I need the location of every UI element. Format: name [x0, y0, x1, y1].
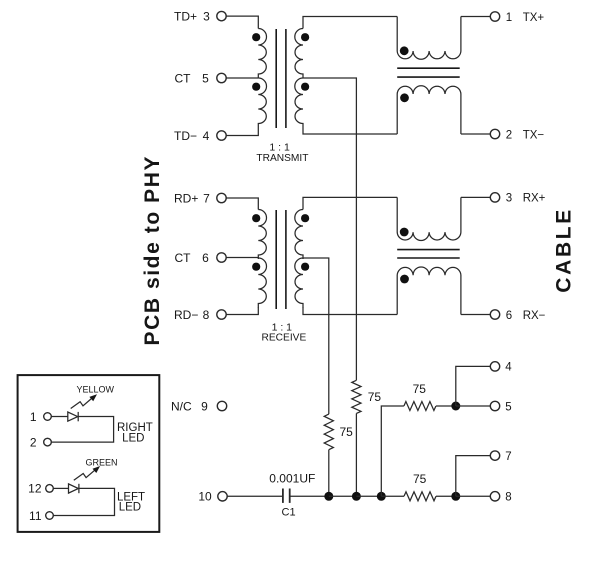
- wire R3 to node E: [436, 405, 456, 407]
- wire T1 secondary top to choke L1: [303, 17, 397, 29]
- svg-text:LED: LED: [122, 433, 144, 445]
- svg-text:CT: CT: [175, 251, 192, 265]
- wire node E to pin 5 (cable): [456, 405, 491, 407]
- choke L1 top winding: [397, 17, 461, 60]
- wire node C to R3: [381, 406, 404, 496]
- svg-text:8: 8: [505, 492, 511, 504]
- choke L2 top winding dot: [400, 228, 409, 237]
- svg-text:2: 2: [506, 129, 512, 141]
- svg-text:RD−: RD−: [174, 308, 198, 322]
- svg-text:75: 75: [413, 382, 427, 396]
- choke L2 bottom winding dot: [400, 275, 409, 284]
- wire pin3 to T1 primary top: [226, 16, 258, 28]
- terminal pin 9 no connect: [217, 401, 226, 410]
- junction node E: [451, 402, 460, 411]
- wire LED D1 to pin 2: [51, 417, 113, 443]
- T2 primary polarity dots: [252, 214, 260, 222]
- svg-text:GREEN: GREEN: [85, 458, 117, 468]
- transformer T2 secondary winding: [295, 210, 303, 260]
- wire R2 to bottom node: [355, 413, 357, 496]
- terminal pin 10: [218, 492, 227, 501]
- choke L1 bottom winding: [397, 86, 461, 134]
- transformer T2 core: [275, 210, 277, 309]
- LED D2 green (diode): [69, 484, 79, 493]
- T1 primary polarity dots: [252, 33, 260, 41]
- svg-text:TX−: TX−: [523, 129, 545, 141]
- wire R4 to node D: [436, 495, 456, 497]
- terminal pin 2 (LED): [44, 438, 52, 446]
- svg-text:TRANSMIT: TRANSMIT: [256, 153, 308, 164]
- svg-text:9: 9: [201, 399, 208, 413]
- resistor R1 75 ohm (vertical): [324, 414, 333, 450]
- LED D2 indicator arrow: [74, 468, 97, 480]
- choke L2 core: [397, 249, 460, 251]
- choke L1 core: [397, 67, 460, 69]
- svg-text:7: 7: [203, 191, 210, 205]
- wire pin5 to T1 primary center tap: [226, 77, 258, 79]
- terminal pin 8 (cable): [490, 492, 499, 501]
- LED D1 indicator arrow: [71, 396, 94, 408]
- svg-text:75: 75: [413, 472, 427, 486]
- svg-text:0.001UF: 0.001UF: [269, 471, 315, 485]
- terminal pin 6 (cable): [490, 310, 499, 319]
- junction node B: [352, 492, 361, 501]
- svg-text:7: 7: [505, 451, 511, 463]
- wire pin4 to T1 primary bottom: [226, 128, 258, 136]
- resistor R2 75 ohm (vertical): [352, 380, 361, 413]
- svg-text:8: 8: [203, 308, 210, 322]
- svg-text:RX+: RX+: [523, 193, 546, 205]
- wire choke L2 to pin 6: [461, 314, 490, 316]
- wire pin1 to LED D1: [51, 416, 68, 418]
- LED section enclosure box: [18, 375, 160, 532]
- wire C1 to node A: [290, 495, 329, 497]
- svg-text:1 : 1: 1 : 1: [272, 321, 293, 333]
- svg-text:3: 3: [506, 193, 512, 205]
- svg-text:RD+: RD+: [174, 191, 198, 205]
- svg-text:11: 11: [29, 509, 42, 523]
- wire R1 to bottom node: [328, 450, 330, 497]
- terminal pin 4 (cable): [490, 362, 499, 371]
- svg-text:PCB side to PHY: PCB side to PHY: [141, 157, 164, 346]
- T2 secondary polarity dots: [301, 214, 309, 222]
- svg-text:4: 4: [203, 129, 210, 143]
- terminal pin 3: [217, 11, 226, 20]
- svg-text:3: 3: [203, 9, 210, 23]
- wire pin12 to LED D2: [53, 487, 68, 489]
- wire choke L1 to pin 1: [461, 16, 490, 18]
- terminal pin 7 (phy): [217, 193, 226, 202]
- wire pin7 to T2 primary top: [226, 198, 258, 210]
- transformer T2 primary winding: [258, 210, 266, 260]
- svg-text:4: 4: [505, 362, 512, 374]
- junction node A: [324, 492, 333, 501]
- svg-text:6: 6: [202, 251, 209, 265]
- svg-text:2: 2: [30, 435, 37, 449]
- wire node D to pin 8 (cable): [456, 495, 491, 497]
- svg-text:RX−: RX−: [523, 310, 546, 322]
- svg-text:12: 12: [28, 482, 42, 496]
- svg-text:1: 1: [30, 410, 37, 424]
- wire T2 secondary center tap: [303, 258, 329, 414]
- terminal pin 1: [490, 12, 499, 21]
- svg-text:CT: CT: [175, 71, 192, 85]
- svg-text:RECEIVE: RECEIVE: [262, 333, 307, 344]
- wire choke L1 to pin 2: [461, 133, 490, 135]
- terminal pin 5 (cable): [490, 401, 499, 410]
- svg-text:1 : 1: 1 : 1: [269, 142, 290, 154]
- svg-text:N/C: N/C: [171, 399, 192, 413]
- wire pin8 to T2 primary bottom: [226, 307, 258, 315]
- wire pin6 to T2 primary center tap: [226, 257, 258, 259]
- wire choke L2 to pin 3: [461, 196, 490, 198]
- choke L1 top winding dot: [400, 46, 409, 55]
- wire node E to pin 4 (cable): [456, 366, 491, 406]
- T1 secondary polarity dots: [301, 33, 309, 41]
- terminal pin 1 (LED): [44, 413, 52, 421]
- wire node B to node C: [356, 495, 381, 497]
- terminal pin 8 (phy): [217, 310, 226, 319]
- svg-text:10: 10: [198, 490, 212, 504]
- terminal pin 7 (cable): [490, 451, 499, 460]
- choke L2 top winding: [397, 197, 461, 240]
- svg-text:CABLE: CABLE: [552, 210, 575, 293]
- wire pin10 to C1: [227, 495, 283, 497]
- terminal pin 2: [490, 129, 499, 138]
- capacitor C1 0.001UF: [282, 489, 284, 503]
- wire T2 secondary top to choke L2: [303, 197, 397, 209]
- svg-text:TD+: TD+: [174, 9, 197, 23]
- svg-text:YELLOW: YELLOW: [76, 384, 114, 394]
- svg-text:TD−: TD−: [174, 129, 197, 143]
- resistor R3 75 ohm (horizontal): [404, 402, 436, 411]
- svg-text:5: 5: [505, 401, 511, 413]
- resistor R4 75 ohm (horizontal): [404, 492, 436, 501]
- svg-text:5: 5: [202, 71, 209, 85]
- svg-text:6: 6: [506, 310, 512, 322]
- junction node C: [377, 492, 386, 501]
- wire node D to pin 7 (cable): [456, 456, 491, 497]
- svg-text:75: 75: [340, 425, 354, 439]
- svg-text:LED: LED: [119, 502, 141, 514]
- wire T1 secondary bottom to choke L1: [303, 128, 397, 135]
- LED D1 yellow (diode): [68, 412, 78, 421]
- svg-text:75: 75: [368, 390, 382, 404]
- terminal pin 5: [217, 73, 226, 82]
- transformer T1 core: [275, 29, 277, 128]
- terminal pin 3 (cable): [490, 193, 499, 202]
- transformer T1 primary winding: [258, 29, 266, 79]
- wire node A to node B: [329, 495, 357, 497]
- wire T2 secondary bottom to choke L2: [303, 307, 397, 315]
- junction node D: [451, 492, 460, 501]
- wire LED D2 to pin 11: [53, 488, 114, 515]
- svg-text:C1: C1: [282, 507, 296, 519]
- svg-text:1: 1: [506, 12, 512, 24]
- terminal pin 4: [217, 131, 226, 140]
- terminal pin 11 (LED): [46, 512, 54, 520]
- terminal pin 12 (LED): [46, 485, 54, 493]
- svg-text:TX+: TX+: [523, 12, 545, 24]
- wire node C to R4: [381, 495, 404, 497]
- choke L2 bottom winding: [397, 267, 461, 315]
- terminal pin 6 (phy): [217, 253, 226, 262]
- choke L1 bottom winding dot: [400, 93, 409, 102]
- transformer T1 secondary winding: [295, 29, 303, 79]
- wire T1 secondary center tap: [303, 78, 356, 380]
